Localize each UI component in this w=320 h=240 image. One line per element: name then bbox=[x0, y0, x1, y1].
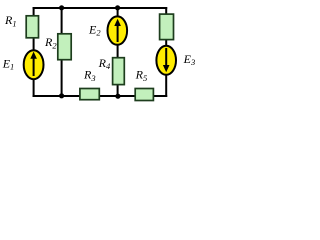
wire: R2 branch bbox=[61, 8, 63, 96]
wire: top bus bbox=[34, 7, 167, 9]
svg-text:E2: E2 bbox=[88, 22, 101, 37]
junction: top bus / middle branch bbox=[115, 5, 120, 10]
junction: bottom bus / R2 branch bbox=[59, 93, 64, 98]
resistor (unlabeled, top right) bbox=[160, 14, 174, 39]
source E3 (EMF, arrow down) bbox=[156, 46, 176, 75]
resistor R3 bbox=[80, 89, 99, 100]
wire: bottom bus bbox=[34, 95, 167, 97]
svg-text:R3: R3 bbox=[83, 68, 96, 83]
resistor R4 bbox=[113, 58, 125, 85]
svg-text:E3: E3 bbox=[183, 52, 196, 67]
resistor R2 bbox=[58, 34, 71, 60]
svg-text:R1: R1 bbox=[4, 13, 17, 28]
svg-text:E1: E1 bbox=[2, 56, 15, 71]
wire: left branch (R1,E1) bbox=[33, 8, 35, 96]
svg-text:R4: R4 bbox=[98, 56, 111, 71]
source E2 (EMF, arrow up) bbox=[108, 16, 128, 44]
resistor R1 bbox=[26, 16, 38, 38]
source E1 (EMF, arrow up) bbox=[24, 50, 44, 79]
resistor R5 bbox=[135, 89, 153, 101]
wire: right branch (R6,E3) bbox=[165, 8, 167, 96]
svg-text:R2: R2 bbox=[44, 35, 57, 50]
junction: bottom bus / middle branch bbox=[115, 94, 120, 99]
junction: top bus / R2 branch bbox=[59, 5, 64, 10]
wire: middle branch (E2,R4) bbox=[117, 8, 119, 96]
svg-text:R5: R5 bbox=[135, 68, 148, 83]
